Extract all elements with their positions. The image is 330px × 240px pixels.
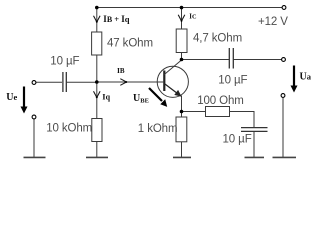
svg-text:Iq: Iq bbox=[102, 92, 110, 102]
wire top supply rail bbox=[97, 7, 282, 9]
resistor R4 1 kOhm bbox=[176, 117, 187, 142]
svg-text:10 µF: 10 µF bbox=[223, 134, 252, 146]
resistor R1 47 kOhm bbox=[92, 32, 102, 55]
svg-text:+12 V: +12 V bbox=[258, 16, 288, 28]
ground C3 bbox=[245, 156, 265, 158]
wire input lower terminal to ground bbox=[33, 119, 35, 157]
transistor Q1 circle bbox=[157, 66, 188, 97]
resistor R5 100 Ohm bbox=[206, 107, 230, 117]
wire rail to R3 bbox=[181, 8, 183, 30]
ground R2 bbox=[86, 156, 108, 158]
wire bypass cap to ground bbox=[253, 132, 255, 157]
terminal input lower bbox=[32, 115, 36, 119]
node emitter junction bbox=[180, 110, 184, 114]
wire emitter node to R5 bbox=[182, 111, 206, 113]
svg-text:IB: IB bbox=[117, 66, 125, 75]
wire C2 to output terminal bbox=[234, 59, 282, 61]
current arrow IB chevron bbox=[120, 79, 126, 86]
transistor Q1 collector lead bbox=[164, 60, 181, 75]
ground input bbox=[24, 156, 46, 158]
svg-text:10 µF: 10 µF bbox=[50, 55, 79, 67]
svg-text:IC: IC bbox=[189, 13, 197, 20]
svg-text:Ua: Ua bbox=[300, 72, 312, 83]
transistor Q1 emitter lead with arrow bbox=[164, 84, 181, 97]
svg-text:1 kOhm: 1 kOhm bbox=[138, 123, 178, 135]
capacitor C3 10 µF emitter bypass bbox=[241, 128, 268, 132]
current arrow IC chevron bbox=[178, 15, 185, 21]
wire left branch top (rail to R1) bbox=[96, 8, 98, 33]
svg-text:IB + Iq: IB + Iq bbox=[103, 14, 129, 24]
wire R2 bottom to ground bbox=[96, 142, 98, 158]
wire output lower terminal to ground bbox=[282, 98, 284, 158]
svg-text:10 kOhm: 10 kOhm bbox=[46, 122, 92, 134]
node A rail-left junction bbox=[95, 6, 99, 10]
wire R5 to bypass cap corner bbox=[230, 112, 255, 128]
node base junction bbox=[95, 80, 99, 84]
wire C1 to base node bbox=[67, 81, 97, 83]
svg-text:10 µF: 10 µF bbox=[218, 74, 247, 86]
wire collector node to C2 bbox=[182, 59, 230, 61]
svg-text:4,7 kOhm: 4,7 kOhm bbox=[193, 33, 242, 45]
node B rail-right junction bbox=[180, 6, 184, 10]
node collector junction bbox=[180, 58, 184, 62]
terminal output upper bbox=[282, 58, 286, 62]
current arrow IB+Iq chevron bbox=[94, 16, 101, 22]
arrow Ue bbox=[21, 87, 28, 114]
svg-text:47 kOhm: 47 kOhm bbox=[107, 38, 153, 50]
capacitor C1 10 µF input bbox=[63, 72, 66, 92]
resistor R3 4,7 kOhm bbox=[176, 29, 187, 53]
wire R3 bottom to collector node bbox=[181, 53, 183, 60]
ground R4 bbox=[173, 156, 191, 158]
wire R4 bottom to ground bbox=[181, 142, 183, 157]
terminal output lower bbox=[281, 94, 285, 98]
wire Iq branch (node to R2) bbox=[96, 82, 98, 119]
wire R1 bottom to base node bbox=[96, 55, 98, 82]
wire emitter vertical bbox=[181, 96, 183, 112]
wire base node to transistor base bbox=[97, 81, 164, 83]
arrow Ua bbox=[291, 66, 298, 93]
ground output bbox=[273, 156, 297, 158]
transistor Q1 base bar bbox=[163, 71, 165, 92]
svg-text:100 Ohm: 100 Ohm bbox=[197, 95, 244, 107]
wire input terminal to C1 bbox=[36, 81, 62, 83]
resistor R2 10 kOhm bbox=[92, 119, 102, 142]
svg-text:Ue: Ue bbox=[6, 92, 17, 103]
wire emitter node to R4 bbox=[181, 112, 183, 118]
terminal input upper bbox=[32, 81, 36, 85]
arrow UBE diagonal bbox=[149, 88, 167, 107]
capacitor C2 10 µF output bbox=[229, 48, 233, 69]
terminal +12V bbox=[282, 6, 286, 10]
current arrow Iq chevron bbox=[94, 91, 101, 97]
